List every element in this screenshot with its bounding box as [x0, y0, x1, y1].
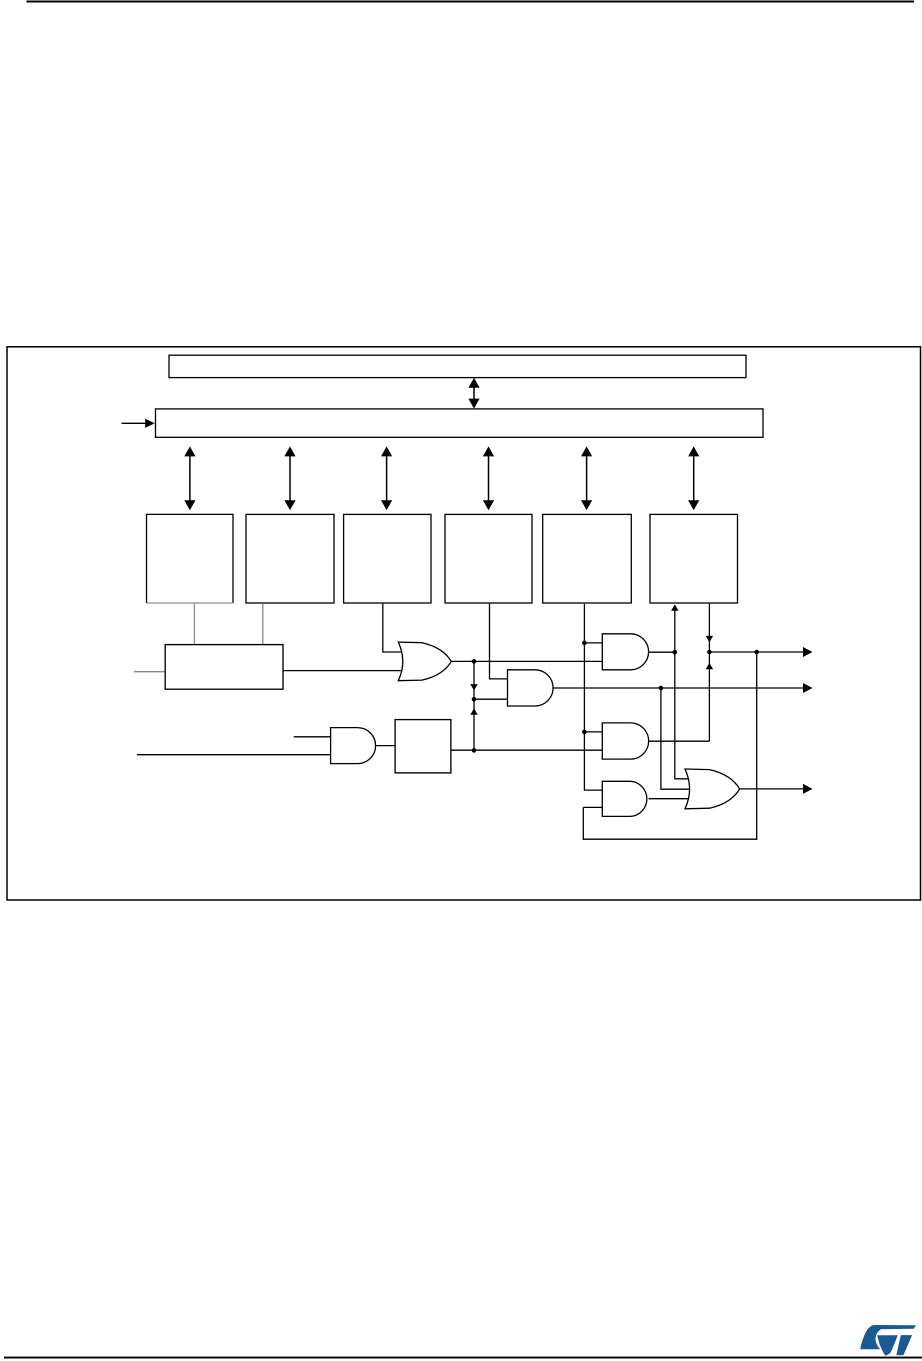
node dot U5-AND3 — [582, 641, 587, 646]
node dot A out — [673, 650, 678, 655]
wire OR2 output (output 3) — [740, 788, 804, 790]
node dot OR1 out — [472, 659, 477, 664]
bus bar2 — [156, 409, 764, 437]
node dot N1 mid — [472, 697, 477, 702]
arrowhead up on U6 line — [706, 663, 713, 669]
and-gate AND5 — [602, 781, 647, 816]
wire AND4 top input — [584, 731, 602, 733]
and-gate AND4 — [602, 723, 648, 759]
arrowhead up on N1 — [470, 708, 477, 714]
node dot out1 left — [707, 650, 712, 655]
block U1 — [147, 514, 234, 603]
wire vertical node N1 — [473, 661, 475, 750]
arrowhead up into U6 — [671, 604, 678, 610]
and-gate AND1 — [508, 670, 554, 706]
wire U3 to OR1 — [383, 604, 406, 652]
block U5 — [543, 514, 632, 603]
wire AND4 output — [649, 740, 710, 742]
wire U2 to R (gray) — [262, 604, 264, 645]
block U6 — [650, 514, 738, 603]
arrowhead down on U6 line — [706, 636, 713, 642]
wire U6 down line — [708, 604, 710, 742]
input arrow into bar2 — [122, 419, 155, 428]
bus double arrow 4 — [483, 446, 494, 510]
wire U6 feedback up-arrow line — [675, 606, 689, 779]
block H — [395, 720, 451, 773]
bar1-bar2 double arrow — [468, 378, 479, 409]
bus double arrow 5 — [581, 446, 592, 510]
wire AND3 top input — [584, 642, 602, 644]
node dot N2 — [659, 686, 664, 691]
block U3 — [344, 514, 431, 603]
ST logo — [860, 1325, 916, 1356]
footer rule — [4, 1357, 922, 1359]
arrowhead output 2 — [803, 683, 813, 693]
arrowhead down on N1 — [470, 684, 477, 690]
block U2 — [246, 514, 334, 603]
or-gate OR1 — [398, 642, 451, 681]
wire AND3 output — [649, 651, 675, 653]
bus bar1 — [169, 355, 746, 377]
wire AND1 output (output 2) — [553, 687, 803, 689]
node dot U5-AND4 — [582, 730, 587, 735]
node dot N1 bottom — [472, 748, 477, 753]
wire node N2 to OR2 — [661, 688, 692, 789]
arrowhead output 1 — [803, 647, 813, 657]
wire output 1 — [709, 651, 803, 653]
wire AND5 output to OR2 — [649, 798, 692, 800]
bus double arrow 3 — [381, 446, 392, 510]
bus double arrow 2 — [284, 446, 295, 510]
wire feedback to AND5 — [583, 806, 602, 808]
wire feedback loop — [583, 652, 756, 839]
register block R — [165, 645, 283, 690]
and-gate AND3 — [602, 634, 648, 670]
wire OR1 to AND3 — [451, 660, 602, 662]
wire input stub to R (gray) — [134, 671, 165, 673]
wire N1 to AND1 — [474, 698, 509, 700]
wire R to OR1 — [283, 670, 406, 672]
wire H to AND4 — [451, 749, 602, 751]
diagram frame — [7, 347, 921, 900]
arrowhead output 3 — [803, 784, 813, 794]
wire U4 to AND1 — [490, 604, 510, 679]
wire AND2 top input stub — [294, 736, 332, 738]
bus double arrow 6 — [688, 446, 699, 510]
header rule — [27, 1, 915, 3]
node dot out1 right — [754, 650, 759, 655]
wire U5 trunk — [584, 604, 602, 790]
block U4 — [445, 514, 532, 603]
or-gate OR2 — [685, 769, 740, 809]
wire AND2 to H — [376, 745, 396, 747]
wire U1 to R (gray) — [193, 604, 195, 645]
bus double arrow 1 — [184, 446, 195, 510]
and-gate AND2 — [331, 728, 376, 764]
wire AND2 bottom input — [137, 754, 332, 756]
